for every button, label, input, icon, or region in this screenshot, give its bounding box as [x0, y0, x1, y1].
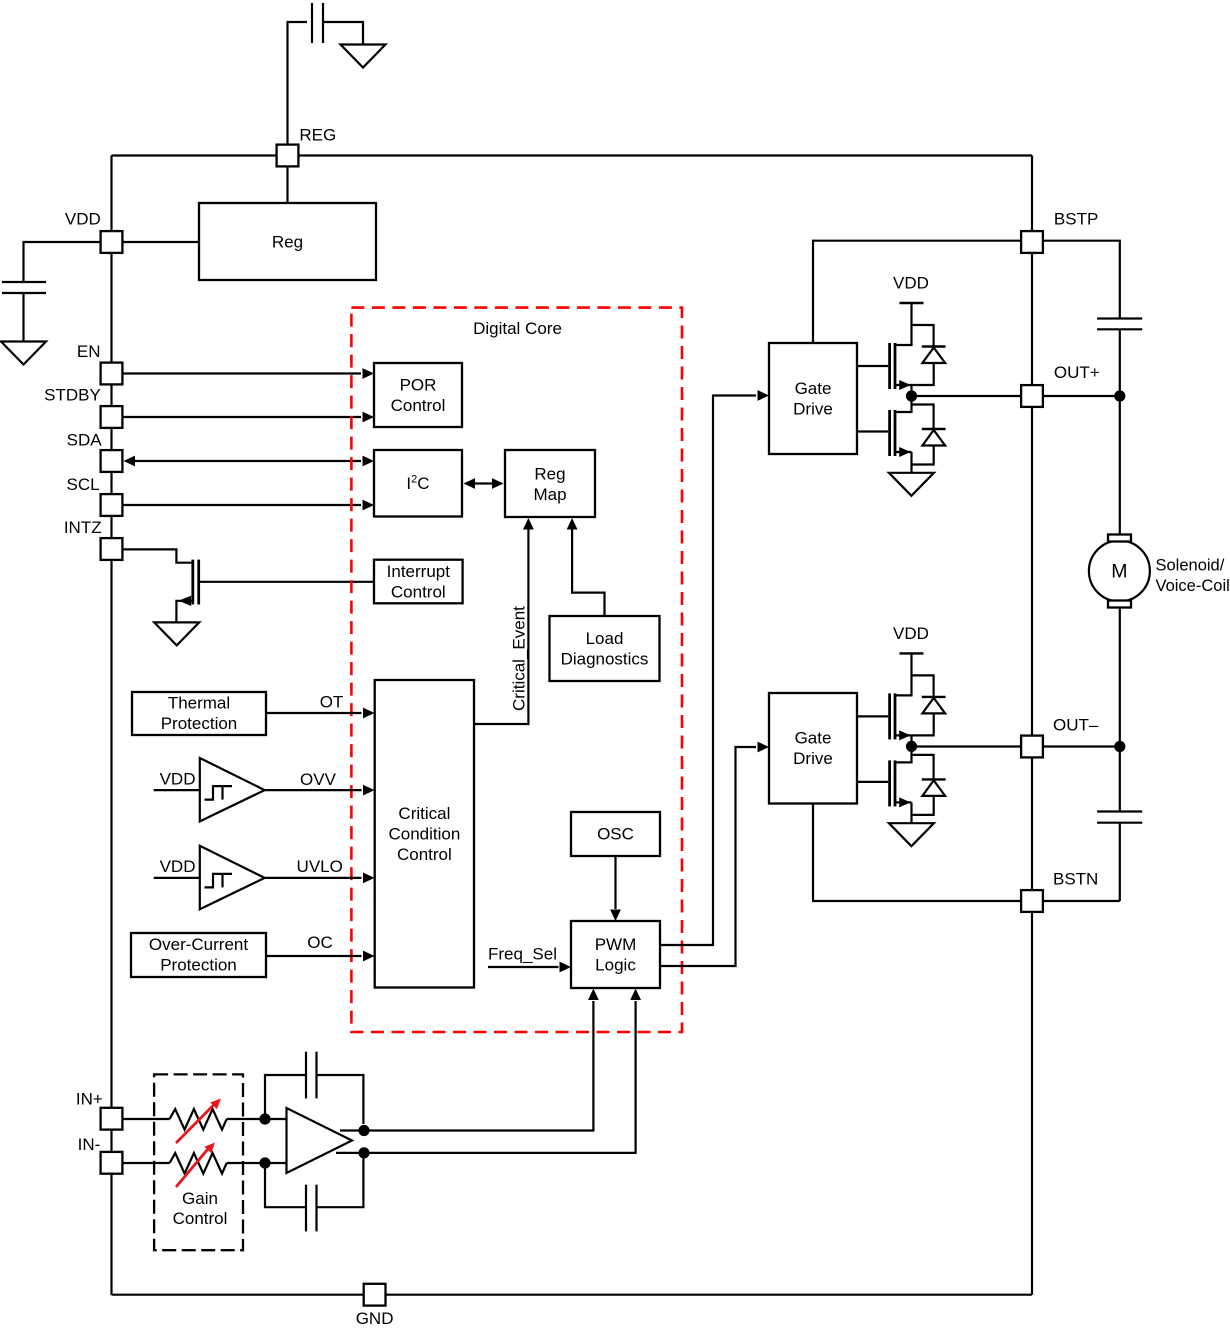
STDBY pin: [101, 406, 123, 428]
svg-text:Voice-Coil: Voice-Coil: [1156, 577, 1230, 595]
wire feedback bottom (C6 to output node): [317, 1158, 364, 1207]
svg-text:VDD: VDD: [65, 210, 101, 229]
net OC label: [307, 933, 333, 952]
svg-text:OUT–: OUT–: [1053, 716, 1099, 735]
svg-text:Control: Control: [397, 845, 452, 864]
block PWM Logic: [571, 921, 660, 988]
wire Q1 source to ground with arrow: [176, 596, 191, 623]
VDD pin label: [65, 210, 101, 229]
wire Critical_Event from Critical Condition Control to Reg Map: [474, 518, 534, 724]
BSTN pin: [1021, 890, 1043, 912]
wire feedback bottom (input- to cap C6): [265, 1163, 305, 1207]
regulator block Reg: [199, 203, 376, 280]
wire to body diode D1L cathode: [912, 404, 934, 430]
wire switch-node vertical (Q1H/Q1L): [910, 385, 912, 413]
GND pin label: [356, 1309, 394, 1328]
wire OUT+ pin to load node: [1044, 395, 1120, 397]
wire Freq_Sel to PWM Logic: [488, 962, 571, 973]
svg-text:POR: POR: [400, 376, 437, 395]
transistor Q2L gate bar: [888, 760, 891, 806]
svg-text:Freq_Sel: Freq_Sel: [488, 945, 557, 964]
net OT label: [320, 693, 344, 712]
svg-text:Critical_Event: Critical_Event: [510, 606, 529, 711]
svg-text:INTZ: INTZ: [64, 518, 102, 537]
block Critical Condition Control: [375, 680, 474, 988]
svg-text:Reg: Reg: [272, 233, 303, 252]
capacitor C6 (bottom feedback): [306, 1185, 317, 1232]
svg-text:Control: Control: [391, 396, 446, 415]
wire PWM Logic output to Gate Drive 1: [660, 390, 769, 945]
wire IN+ pin to resistor R1: [123, 1118, 170, 1120]
wire Gate Drive 2 to Q2H gate: [857, 715, 888, 717]
svg-text:Control: Control: [173, 1209, 228, 1228]
EN pin label: [77, 342, 101, 361]
wire UVLO: comparator U2 to Critical Condition Control: [265, 873, 375, 884]
svg-text:Protection: Protection: [160, 956, 237, 975]
SCL pin: [101, 494, 123, 516]
OUT+ pin label: [1054, 363, 1100, 382]
wire SDA to I2C (bidirectional): [124, 456, 375, 467]
wire to body diode D2H cathode: [912, 674, 934, 697]
wire Q1L source to ground: [912, 452, 934, 473]
wire INTZ pin to transistor Q1 drain: [123, 549, 192, 562]
wire PWM Logic output to Gate Drive 2: [660, 742, 769, 966]
BSTP pin label: [1054, 210, 1098, 229]
wire C4 down to BSTN rail: [1119, 823, 1121, 901]
svg-text:Thermal: Thermal: [168, 694, 230, 713]
block I2C: [374, 450, 462, 517]
IN+ pin: [101, 1108, 123, 1130]
capacitor C4 (OUT- to BSTN): [1097, 812, 1142, 823]
svg-text:OSC: OSC: [597, 825, 634, 844]
hysteresis symbol (U1): [205, 786, 233, 800]
svg-text:Gate: Gate: [795, 379, 832, 398]
wire: right trunk vertical (BSTP/OUT+/OUT-/BSTN down to GND rail): [1031, 156, 1033, 1295]
wire Load Diagnostics to Reg Map: [567, 518, 605, 616]
wire Gate Drive 1 to Q1L gate: [857, 430, 888, 432]
wire from VDD pin to C2: [24, 242, 101, 281]
wire C3 to OUT+ node: [1119, 329, 1121, 396]
svg-text:Gate: Gate: [795, 729, 832, 748]
wire switch-node vertical (Q2H/Q2L): [910, 735, 912, 763]
svg-text:Drive: Drive: [793, 749, 833, 768]
wire SCL to I2C: [123, 500, 374, 511]
IN+ pin label: [76, 1090, 103, 1109]
wire OC: Over-Current Protection to Critical Condition Control: [266, 951, 375, 962]
wire: left trunk vertical (VDD/EN/STDBY/SDA/SCL/INTZ down to GND rail): [110, 156, 112, 1295]
wire VDD to Q2H drain: [910, 652, 912, 696]
wire Gate Drive 2 to Q2L gate: [857, 781, 888, 783]
block Interrupt Control: [374, 560, 463, 604]
transistor Q2H drain stub: [894, 694, 912, 696]
transistor Q1L drain stub: [894, 411, 912, 413]
svg-text:Control: Control: [391, 583, 446, 602]
IN- pin: [101, 1152, 123, 1174]
VDD label (comparator U1 input): [160, 769, 196, 788]
comparator U1 triangle: [200, 758, 265, 821]
GND pin: [364, 1284, 386, 1306]
wire to body diode D2L cathode: [912, 754, 934, 780]
svg-text:PWM: PWM: [595, 935, 637, 954]
svg-text:VDD: VDD: [160, 857, 196, 876]
transistor Q2L source stub with arrow: [894, 797, 912, 807]
INTZ pin label: [64, 518, 102, 537]
block Thermal Protection: [132, 692, 266, 735]
svg-text:BSTP: BSTP: [1054, 210, 1098, 229]
svg-text:Protection: Protection: [161, 714, 238, 733]
capacitor C2 (VDD to GND): [2, 282, 46, 293]
gain-set arrow over R2: [176, 1143, 215, 1188]
OUT+ pin: [1021, 385, 1043, 407]
junction dot (OUT- load node): [1114, 741, 1125, 752]
solenoid/voice-coil motor M body: [1089, 541, 1150, 602]
wire BSTP pin to Gate Drive 1 top: [813, 241, 1020, 343]
wire BSTN pin to C4: [1044, 900, 1120, 902]
comparator U2 triangle: [200, 846, 265, 909]
transistor Q2H source stub with arrow: [894, 730, 934, 740]
wire BSTP pin to bootstrap capacitor C3: [1044, 241, 1120, 318]
svg-text:OC: OC: [307, 933, 333, 952]
wire from VDD pin to Reg block: [123, 241, 199, 243]
svg-text:OT: OT: [320, 693, 344, 712]
wire OSC to PWM Logic: [610, 856, 621, 921]
svg-text:Solenoid/: Solenoid/: [1156, 557, 1225, 575]
REG pin label: [299, 126, 336, 145]
VDD pin: [101, 231, 123, 253]
wire EN to POR Control: [123, 368, 374, 379]
SDA pin label: [67, 431, 103, 450]
wire switch node 1 to OUT+ pin: [917, 395, 1020, 397]
svg-text:GND: GND: [356, 1309, 394, 1328]
wire from C1 to ground: [323, 22, 363, 45]
wire OUT+ node down to solenoid: [1119, 396, 1121, 535]
wire solenoid to OUT- node: [1119, 608, 1121, 747]
block Gate Drive 1: [769, 343, 857, 454]
block Gate Drive 2: [769, 693, 857, 804]
IN- pin label: [78, 1135, 101, 1154]
Gain Control label: [173, 1189, 228, 1228]
capacitor C1 (REG to GND): [312, 3, 323, 43]
wire Gate Drive 2 bottom to BSTN pin: [813, 804, 1020, 902]
body diode D2L: [922, 779, 946, 816]
wire R2 to op-amp inverting input: [227, 1162, 287, 1164]
svg-text:EN: EN: [77, 342, 101, 361]
junction dot (output+ feedback node): [358, 1125, 369, 1136]
net UVLO label: [297, 857, 343, 876]
svg-text:I2C: I2C: [406, 474, 429, 494]
wire R1 to op-amp non-inverting input: [227, 1118, 287, 1120]
variable resistor R1 (IN+ gain): [170, 1109, 227, 1130]
svg-text:Interrupt: Interrupt: [387, 562, 451, 581]
svg-text:OVV: OVV: [300, 770, 337, 789]
wire OVV: comparator U1 to Critical Condition Control: [265, 785, 375, 796]
svg-text:VDD: VDD: [893, 274, 929, 293]
wire from REG pin down to Reg block: [286, 166, 288, 203]
OUT- pin: [1021, 736, 1043, 758]
wire I2C to Reg Map (bidirectional): [464, 478, 504, 489]
transistor Q2L channel bar: [894, 760, 897, 806]
svg-text:Map: Map: [533, 485, 566, 504]
transistor Q1H channel bar: [894, 343, 897, 389]
wire to body diode D1H cathode: [912, 324, 934, 347]
wire OUT- pin to load node: [1044, 745, 1120, 747]
BSTP pin: [1021, 231, 1043, 253]
wire OUT- node to bootstrap capacitor C4: [1119, 747, 1121, 812]
dashed boundary: Gain Control: [154, 1074, 243, 1250]
svg-text:OUT+: OUT+: [1054, 363, 1100, 382]
svg-text:SCL: SCL: [67, 475, 100, 494]
svg-text:Drive: Drive: [793, 400, 833, 419]
wire VDD to Q1H drain: [910, 302, 912, 346]
VDD label (above Q2H): [893, 624, 929, 643]
svg-text:SDA: SDA: [67, 431, 103, 450]
transistor Q1L channel bar: [894, 410, 897, 456]
wire: bottom GND rail: [112, 1294, 1033, 1296]
wire: top rail from left trunk to right trunk at REG: [112, 154, 1033, 156]
INTZ pin: [101, 538, 123, 560]
BSTN pin label: [1053, 870, 1098, 889]
VDD label (above Q1H): [893, 274, 929, 293]
comparator U2 (UVLO) input wire: [154, 877, 200, 879]
ground (left, for C2): [1, 342, 46, 365]
junction dot switch node (1): [906, 390, 917, 401]
transistor Q2L drain stub: [894, 761, 912, 763]
STDBY pin label: [44, 386, 101, 405]
transistor Q1 gate bar: [197, 560, 200, 605]
transistor Q1L gate bar: [888, 410, 891, 456]
transistor Q1H gate bar: [888, 343, 891, 389]
wire from C2 to ground: [22, 293, 24, 342]
block OSC: [571, 812, 660, 856]
gain-set arrow over R1: [176, 1099, 221, 1144]
body diode D2H: [922, 697, 946, 737]
svg-text:REG: REG: [299, 126, 336, 145]
SDA pin: [101, 450, 123, 472]
dashed boundary: Digital Core: [351, 308, 682, 1032]
REG pin: [277, 145, 299, 167]
net Critical_Event label: [510, 606, 529, 711]
svg-text:UVLO: UVLO: [297, 857, 343, 876]
net OVV label: [300, 770, 337, 789]
svg-text:STDBY: STDBY: [44, 386, 101, 405]
wire Q2L source to ground: [912, 802, 934, 823]
svg-text:Over-Current: Over-Current: [149, 935, 248, 954]
comparator U1 (OVV) input wire: [154, 789, 200, 791]
body diode D1H: [922, 347, 946, 387]
Digital Core title: [473, 319, 562, 338]
block POR Control: [374, 363, 462, 427]
SCL pin label: [67, 475, 100, 494]
svg-text:IN-: IN-: [78, 1135, 101, 1154]
wire from REG pin up to decoupling capacitor: [288, 22, 308, 145]
transistor Q1L source stub with arrow: [894, 447, 912, 457]
transistor Q1H source stub with arrow: [894, 380, 934, 390]
wire OT: Thermal Protection to Critical Condition Control: [266, 708, 375, 719]
junction dot (output- feedback node): [358, 1147, 369, 1158]
svg-text:Critical: Critical: [398, 804, 450, 823]
net Freq_Sel label: [488, 945, 557, 964]
junction dot (OUT+ load node): [1114, 390, 1125, 401]
junction dot switch node (2): [906, 741, 917, 752]
svg-text:IN+: IN+: [76, 1090, 103, 1109]
wire op-amp output- to PWM Logic: [336, 989, 641, 1153]
ground (top, for C1): [341, 45, 386, 68]
wire IN- pin to resistor R2: [123, 1162, 170, 1164]
wire Gate Drive 1 to Q1H gate: [857, 365, 888, 367]
VDD supply bar for Q2H: [900, 652, 924, 654]
transistor Q2H gate bar: [888, 693, 891, 739]
capacitor C3 (BSTP to OUT+): [1097, 319, 1142, 330]
op-amp U3 (input amplifier): [287, 1108, 353, 1173]
svg-text:Logic: Logic: [595, 956, 636, 975]
junction dot (op-amp input- node): [259, 1157, 270, 1168]
block Over-Current Protection: [131, 933, 266, 977]
transistor Q1H drain stub: [894, 344, 912, 346]
variable resistor R2 (IN- gain): [170, 1153, 227, 1174]
wire switch node 2 to OUT- pin: [917, 745, 1020, 747]
solenoid/voice-coil motor M terminal (bottom): [1108, 601, 1131, 608]
capacitor C5 (top feedback): [306, 1052, 317, 1099]
OUT- pin label: [1053, 716, 1099, 735]
ground (for Q1 source): [154, 622, 199, 645]
svg-text:Reg: Reg: [534, 465, 565, 484]
svg-text:BSTN: BSTN: [1053, 870, 1098, 889]
wire op-amp output+ to PWM Logic: [340, 989, 599, 1131]
wire STDBY to POR Control: [123, 412, 374, 423]
VDD supply bar for Q1H: [900, 302, 924, 304]
svg-text:Digital Core: Digital Core: [473, 319, 562, 338]
svg-text:Condition: Condition: [388, 824, 460, 843]
wire feedback top (input+ to cap C5): [265, 1075, 305, 1119]
junction dot (op-amp input+ node): [259, 1113, 270, 1124]
svg-text:M: M: [1111, 561, 1127, 583]
body diode D1L: [922, 429, 946, 466]
block Load Diagnostics: [550, 616, 660, 681]
ground (below Q2L): [889, 823, 934, 846]
svg-text:Gain: Gain: [182, 1189, 218, 1208]
EN pin: [101, 363, 123, 385]
svg-text:VDD: VDD: [893, 624, 929, 643]
solenoid/voice-coil motor M terminal (top): [1108, 535, 1131, 542]
wire Q1 gate to Interrupt Control: [200, 581, 374, 583]
svg-text:VDD: VDD: [160, 769, 196, 788]
transistor Q2H channel bar: [894, 693, 897, 739]
load label Solenoid/Voice-Coil: [1156, 557, 1230, 596]
wire feedback top (C5 to output node): [317, 1075, 364, 1124]
transistor Q1 channel bar: [191, 560, 194, 605]
VDD label (comparator U2 input): [160, 857, 196, 876]
block Reg Map: [505, 450, 595, 517]
hysteresis symbol (U2): [205, 874, 233, 888]
ground (below Q1L): [889, 473, 934, 496]
svg-text:Load: Load: [586, 629, 624, 648]
svg-text:Diagnostics: Diagnostics: [561, 650, 649, 669]
